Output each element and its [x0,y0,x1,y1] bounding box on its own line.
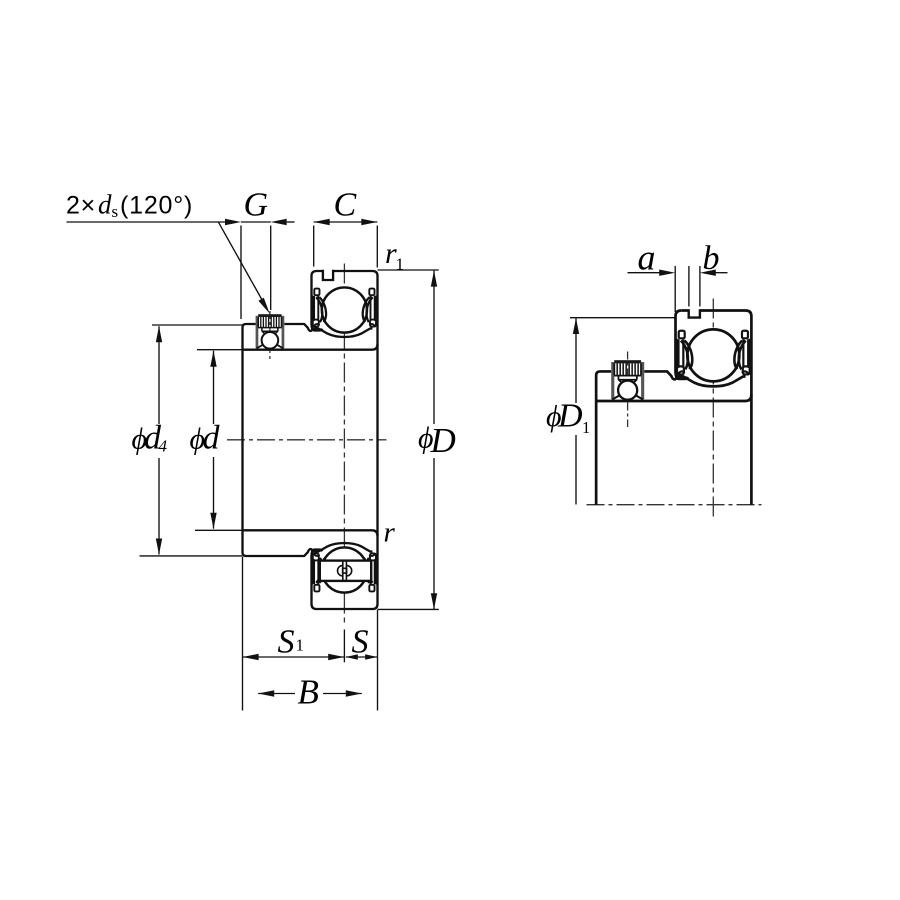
svg-text:d: d [203,420,221,457]
svg-text:2×: 2× [66,192,96,220]
svg-text:S: S [278,624,295,661]
svg-text:s: s [112,202,119,221]
svg-text:a: a [638,238,656,278]
svg-text:b: b [703,240,720,277]
svg-text:S: S [352,624,369,661]
svg-text:1: 1 [396,255,405,274]
svg-text:D: D [430,421,456,460]
svg-text:d: d [98,190,112,220]
svg-text:C: C [334,187,357,224]
svg-text:G: G [244,187,269,224]
svg-text:(120°): (120°) [120,192,193,220]
svg-text:1: 1 [296,636,305,655]
svg-text:1: 1 [582,418,590,437]
svg-text:D: D [557,398,583,435]
svg-text:B: B [298,673,319,712]
svg-text:4: 4 [159,437,168,456]
svg-text:r: r [384,517,396,549]
